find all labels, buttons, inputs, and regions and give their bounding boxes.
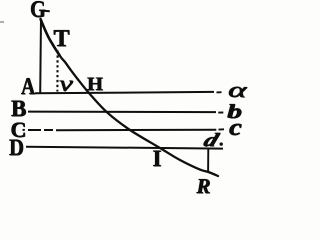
- node b: [227, 102, 242, 122]
- wire: line B to b: [28, 111, 216, 114]
- node T: [54, 27, 70, 51]
- node H: [87, 75, 103, 94]
- node v: [59, 72, 73, 95]
- node I: [153, 147, 162, 170]
- node R: [197, 176, 211, 197]
- node a: [228, 79, 247, 101]
- node D: [9, 136, 24, 159]
- curve upper reinforcement: [41, 19, 61, 56]
- node B: [11, 97, 26, 120]
- wire: line A to a: [35, 92, 214, 93]
- wire: vertical tick from D-line down to curve near R: [207, 149, 209, 173]
- node C: [11, 119, 27, 141]
- curve G-T-H-I-R: [41, 19, 219, 176]
- node d: [201, 131, 221, 150]
- wire: line C to c (dashed start): [23, 129, 25, 131]
- node G: right spur: [44, 10, 50, 12]
- node d: period: [220, 143, 223, 146]
- node c: [229, 116, 242, 140]
- node A: [21, 75, 35, 99]
- wire: vertical line G to A: [39, 19, 42, 94]
- wire: line D to d: [26, 147, 223, 149]
- node: speck at left margin: [0, 21, 4, 23]
- wire: dotted ordinate below T: [56, 51, 58, 92]
- node G: [30, 0, 46, 22]
